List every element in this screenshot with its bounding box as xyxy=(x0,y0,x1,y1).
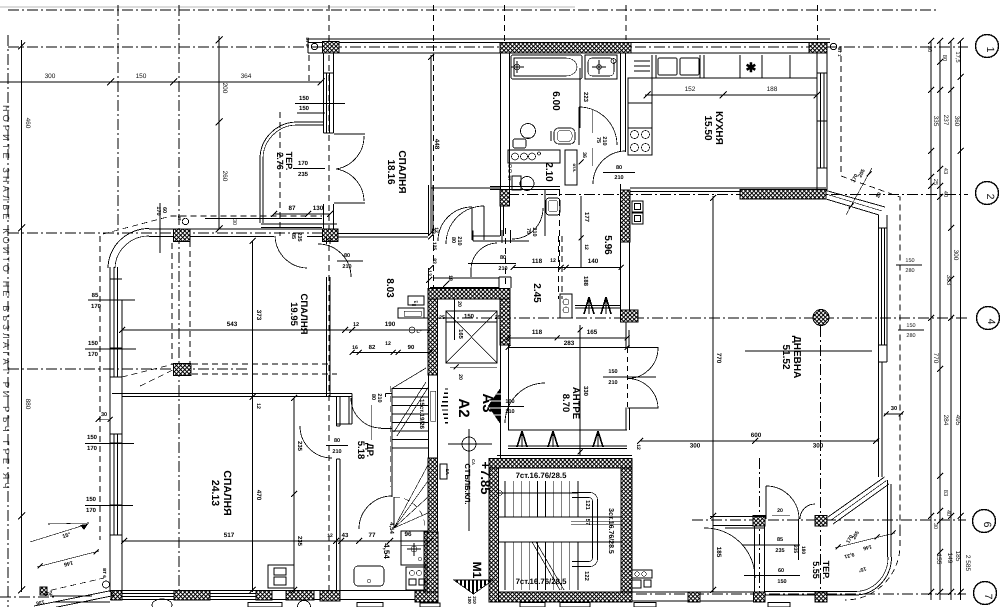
dim tick xyxy=(814,92,821,99)
label СПАЛНЯ 24.13 xyxy=(209,470,233,515)
svg-text:82: 82 xyxy=(369,344,376,351)
svg-text:364: 364 xyxy=(241,73,252,80)
elevator X 2 xyxy=(446,311,497,363)
kitchen counter edge xyxy=(631,77,817,79)
grid col x100 xyxy=(99,236,101,540)
label 8.03 xyxy=(384,278,395,298)
wall antre east low xyxy=(625,408,627,431)
column hatch antre NE xyxy=(621,310,639,322)
grid bubble 6 xyxy=(973,510,996,533)
dim 4.54 rot xyxy=(388,522,395,534)
dim 60/170 rot xyxy=(155,203,167,253)
dim text 300 xyxy=(45,73,56,80)
dim tick xyxy=(937,59,943,65)
window glazing S2 xyxy=(122,596,174,598)
BT6 label xyxy=(102,568,107,578)
small circle xyxy=(611,59,616,64)
bathtub xyxy=(511,55,582,79)
door 19.95 arc xyxy=(318,244,351,277)
column hatch wc xyxy=(500,190,510,207)
svg-text:188: 188 xyxy=(767,86,778,93)
stair top diagonal xyxy=(392,368,426,389)
wc pan 2.45 xyxy=(546,198,560,215)
label 5.96 xyxy=(602,235,613,255)
label СПАЛНЯ 19.95 xyxy=(288,293,309,334)
svg-text:30: 30 xyxy=(926,46,933,52)
dim 80/210 ДР rot xyxy=(370,393,382,440)
svg-text:150: 150 xyxy=(87,434,98,441)
wall 2.45 east2 xyxy=(561,236,563,299)
terrace bottom wall xyxy=(261,223,337,225)
window sill xyxy=(879,344,888,346)
stair lower flight1 treads xyxy=(505,481,578,517)
svg-text:85: 85 xyxy=(290,233,296,239)
wall row3 outer xyxy=(149,228,323,230)
dim text 364 xyxy=(241,73,252,80)
svg-text:210: 210 xyxy=(614,175,623,181)
wall terrace/M1 divider2 xyxy=(764,526,766,592)
svg-text:40: 40 xyxy=(945,510,951,516)
wall antre west2 xyxy=(508,345,510,430)
dim 30 balcony xyxy=(884,405,904,417)
svg-text:СА: СА xyxy=(471,459,476,465)
svg-text:150: 150 xyxy=(464,313,475,320)
door living arc top xyxy=(628,348,659,379)
wall corridor east2 xyxy=(432,185,434,236)
bottom strip fixture rect4 xyxy=(520,603,545,607)
svg-text:36: 36 xyxy=(581,152,587,158)
dim tick xyxy=(216,226,223,233)
dim tick xyxy=(937,38,943,44)
ter5.55 leaf line xyxy=(798,519,800,560)
svg-text:43: 43 xyxy=(342,532,349,539)
svg-text:122: 122 xyxy=(583,571,590,581)
dim text 360 xyxy=(953,116,960,127)
closet rail 5.96 xyxy=(575,306,620,309)
svg-text:16: 16 xyxy=(352,345,358,351)
wall 2.45 north xyxy=(473,235,500,237)
shaft wall left lower2 xyxy=(437,375,439,458)
door terrace 2.76 arc xyxy=(275,236,307,268)
dim tick xyxy=(958,513,964,519)
dim text 155 xyxy=(935,554,942,565)
window dim divider xyxy=(898,329,924,331)
diag dim SW 146 xyxy=(63,559,73,567)
wall 2.45 vert band xyxy=(502,230,511,243)
dim tick xyxy=(937,589,943,595)
svg-text:15ст.19/26: 15ст.19/26 xyxy=(418,399,425,430)
svg-text:80: 80 xyxy=(500,255,506,261)
wall west glazing2 xyxy=(117,267,119,377)
svg-text:180: 180 xyxy=(800,546,806,555)
dim text 185 xyxy=(954,551,961,562)
washbasin bath xyxy=(585,55,617,79)
terrace dashed vert top xyxy=(308,55,310,82)
diag dim SE 170 xyxy=(845,534,855,545)
dim tick xyxy=(928,87,934,93)
wall 19.95 east lower2 xyxy=(329,277,331,396)
svg-text:200: 200 xyxy=(221,83,228,94)
wall antre south cap xyxy=(497,455,632,457)
wall 2.45 north b xyxy=(473,240,529,242)
svg-text:7ст.16.76/28.5: 7ст.16.76/28.5 xyxy=(516,577,567,586)
svg-text:80: 80 xyxy=(334,438,340,444)
dim 118/12/140 xyxy=(511,258,624,270)
svg-text:100: 100 xyxy=(505,399,514,405)
dim tick xyxy=(928,183,934,189)
svg-text:517: 517 xyxy=(224,532,235,539)
door living double bottom line xyxy=(628,407,659,409)
dim text 284 xyxy=(942,415,949,426)
dim tick xyxy=(928,38,934,44)
bottom strip fixture rect3 xyxy=(420,603,440,607)
svg-text:284: 284 xyxy=(942,415,949,426)
label СА xyxy=(471,459,476,465)
wc counter circles xyxy=(512,152,541,160)
stair winder edge xyxy=(393,497,395,528)
dim tick xyxy=(426,277,432,283)
column hatch row7 far W xyxy=(688,592,700,602)
wall hatch kitchen south xyxy=(740,190,826,200)
dim 85/235 rot xyxy=(290,232,302,241)
stairwell hatch top xyxy=(489,459,632,469)
dim 283 xyxy=(506,340,630,350)
svg-text:12: 12 xyxy=(430,228,436,234)
wall bath east lower xyxy=(620,184,622,190)
grid col x560 xyxy=(559,190,561,266)
diag window SE 2 xyxy=(831,481,887,521)
svg-text:150: 150 xyxy=(299,105,310,112)
label 4.54 xyxy=(382,543,391,559)
wall jog ДР east xyxy=(348,397,350,425)
M1 dim 210 xyxy=(472,596,477,604)
door 24.13 arc xyxy=(300,426,332,458)
label ТЕР 5.55 xyxy=(811,561,831,580)
svg-text:ВТ 8: ВТ 8 xyxy=(305,38,310,48)
dim 12 rot 600line xyxy=(635,444,641,450)
svg-text:170: 170 xyxy=(87,445,98,452)
shaft hatch left lower xyxy=(428,458,438,532)
dim text 149 xyxy=(946,553,953,564)
bidet back xyxy=(550,131,552,141)
dim 12/125/83/13 rot xyxy=(428,228,437,270)
svg-text:283: 283 xyxy=(564,340,575,347)
bottom strip fixture rect2 xyxy=(357,603,383,607)
dim text 260 xyxy=(221,171,228,182)
stair label 7ст bottom xyxy=(516,577,567,586)
door corridor2 arc xyxy=(438,207,472,241)
dim text 188 xyxy=(767,86,778,93)
kitchen sink 2 xyxy=(680,58,699,75)
grid col x505 top xyxy=(504,5,506,42)
kitchen counter left xyxy=(628,78,652,128)
overhang dashed band W2 xyxy=(189,241,191,364)
column hatch row6 W xyxy=(753,516,765,527)
svg-text:25: 25 xyxy=(495,315,501,321)
dim text 152 xyxy=(685,86,696,93)
wall kitchen east outer xyxy=(816,53,818,190)
label +7.85 xyxy=(478,462,493,495)
stair left edge xyxy=(391,388,393,497)
svg-text:100: 100 xyxy=(467,596,472,604)
overhang dashed band S2 xyxy=(192,373,337,375)
balcony dashed corner SE xyxy=(845,530,900,600)
elevator dim vline xyxy=(454,299,456,340)
svg-text:373: 373 xyxy=(255,310,262,321)
grid col A x8 xyxy=(7,35,9,607)
dim 16/82/12/90 xyxy=(350,341,433,355)
diag dim SW arrow line xyxy=(30,524,88,542)
wall 18.16 west inner xyxy=(333,53,335,133)
terrace 5.55 east xyxy=(887,480,889,557)
grid col x625 top xyxy=(625,5,627,40)
dim 20 row6 xyxy=(772,508,790,515)
toilet bath xyxy=(513,124,536,149)
stair lower flight2 treads xyxy=(505,542,578,590)
grid line top horizontal xyxy=(8,9,938,11)
shaft hatch right xyxy=(500,299,510,345)
svg-text:12: 12 xyxy=(385,341,391,347)
dim text 83 xyxy=(942,490,949,496)
window cap xyxy=(879,361,888,363)
kitchen stove xyxy=(628,128,652,155)
door M1 terrace arc xyxy=(704,528,755,578)
washbasin inner xyxy=(588,58,614,76)
wall south inner xyxy=(110,599,438,601)
svg-text:210: 210 xyxy=(498,266,507,272)
wall top outer edge xyxy=(308,38,830,40)
svg-text:43: 43 xyxy=(942,168,949,174)
dim text 150 xyxy=(136,73,147,80)
svg-text:460: 460 xyxy=(24,118,31,129)
washing machine xyxy=(354,566,384,586)
label A2 xyxy=(455,398,472,417)
kitchen star symbol xyxy=(746,60,757,75)
vent circle BT1 xyxy=(830,43,836,49)
shaft hatch left bottom xyxy=(424,532,438,592)
bottom strip fixture ellipse xyxy=(152,599,172,607)
dim text 460 xyxy=(24,118,31,129)
svg-text:12: 12 xyxy=(255,403,261,409)
diag dim SE 9,31 xyxy=(844,551,855,559)
svg-text:149: 149 xyxy=(946,553,953,564)
grid col x118 xyxy=(117,5,119,235)
svg-text:280: 280 xyxy=(906,333,915,339)
svg-text:ТЕР.: ТЕР. xyxy=(821,561,831,580)
grid col x434 xyxy=(433,5,435,310)
svg-text:96: 96 xyxy=(404,531,412,538)
diag window NE 2 xyxy=(826,194,882,211)
otl box 2 xyxy=(408,296,424,305)
dim tick xyxy=(937,366,943,372)
wall 24.13 east lower2 xyxy=(339,459,341,592)
svg-text:6: 6 xyxy=(981,522,993,528)
dim 150/150 window xyxy=(295,95,345,113)
svg-text:25: 25 xyxy=(439,315,445,321)
svg-text:отл.: отл. xyxy=(572,164,577,173)
door bath arc xyxy=(579,107,617,145)
svg-text:30: 30 xyxy=(932,523,938,529)
M1 stair triangle xyxy=(454,580,493,594)
wall living east outer xyxy=(878,215,880,477)
label КУХНЯ 15.50 xyxy=(702,111,724,145)
svg-text:24.13: 24.13 xyxy=(209,480,221,506)
wall antre east low2 xyxy=(629,408,631,431)
closet hangers 5.96 xyxy=(584,297,611,314)
stairwell hatch right xyxy=(621,468,632,592)
dim 150/210 living door xyxy=(603,369,656,386)
svg-text:20: 20 xyxy=(457,374,463,380)
dim 80/210 2.45door xyxy=(468,255,516,272)
wall living east lower2 xyxy=(881,362,883,477)
wall row3 inner2 xyxy=(307,236,323,238)
svg-text:20: 20 xyxy=(456,301,462,307)
overhang dashed band W1 xyxy=(171,243,173,364)
wall bath/wc divider2 xyxy=(490,189,560,191)
kitchen sink 1 xyxy=(658,58,677,75)
svg-text:18.16: 18.16 xyxy=(385,159,396,184)
diag window SE 3 xyxy=(833,484,889,524)
svg-text:150: 150 xyxy=(608,369,617,375)
svg-text:ВТ 1: ВТ 1 xyxy=(837,48,842,58)
svg-text:185: 185 xyxy=(954,551,961,562)
label ДР 5.18 xyxy=(355,441,375,460)
closet antre rail2 xyxy=(508,448,627,450)
page left margin text xyxy=(1,105,11,492)
grid row 4 xyxy=(424,317,968,319)
column hatch row6 E xyxy=(815,516,827,527)
window dim divider xyxy=(896,264,922,266)
wall antre east upper xyxy=(626,322,629,348)
stair handrail top xyxy=(498,491,578,495)
door 18.16 double leaf bottom line xyxy=(334,202,365,204)
wall jog ДР bottom xyxy=(337,423,352,425)
door 4.54 arc xyxy=(359,496,392,529)
stair flight2 break xyxy=(532,542,564,590)
dim tick xyxy=(937,473,943,479)
window dim 150 xyxy=(906,323,915,329)
door 2.45b leaf xyxy=(470,270,472,277)
chamfer hatch block xyxy=(40,587,47,595)
door 2.45b arc xyxy=(471,243,497,270)
counter M1 sink xyxy=(401,531,427,565)
dim 330 vline xyxy=(578,325,590,455)
wall bath east inner xyxy=(625,53,627,152)
svg-text:125: 125 xyxy=(431,242,437,251)
grid bubble 1 xyxy=(976,35,999,58)
svg-text:188: 188 xyxy=(582,276,589,287)
dim col line c xyxy=(950,41,952,600)
window sill xyxy=(817,72,827,74)
toilet bath stem xyxy=(526,137,531,139)
dim tick xyxy=(937,194,943,200)
dim 85/170 left xyxy=(88,292,135,310)
svg-text:470: 470 xyxy=(255,490,262,501)
svg-text:165: 165 xyxy=(587,329,598,336)
svg-text:121: 121 xyxy=(584,500,591,510)
stair label 3ст xyxy=(607,508,615,554)
svg-text:300: 300 xyxy=(690,443,701,450)
svg-text:210: 210 xyxy=(342,264,351,270)
wall jog ДР east2 xyxy=(351,394,353,425)
corner arc NW inner xyxy=(115,236,149,268)
overhang dashed band S1 xyxy=(192,363,330,365)
dim tick xyxy=(948,589,954,595)
svg-text:210: 210 xyxy=(531,227,537,236)
chamfer dim 136 xyxy=(35,598,45,606)
door antre west arc xyxy=(505,383,545,423)
terrace corner arc outer xyxy=(260,122,297,159)
svg-text:13: 13 xyxy=(426,270,432,276)
wall top inner line xyxy=(308,42,830,44)
grid col x179 xyxy=(178,5,180,592)
wall top left cap xyxy=(307,39,309,53)
elevator dim 165 xyxy=(457,329,464,339)
wall bath east xyxy=(620,53,622,152)
wc counter xyxy=(508,150,560,163)
svg-text:300: 300 xyxy=(952,250,959,261)
svg-text:2 585: 2 585 xyxy=(964,555,971,572)
dim tick xyxy=(928,589,934,595)
wall west inner seg2 xyxy=(121,434,123,592)
wall 19.95 east upper xyxy=(326,237,328,244)
dim tick xyxy=(107,79,114,86)
svg-text:237: 237 xyxy=(942,115,949,126)
svg-text:177: 177 xyxy=(583,212,590,223)
wc toilet xyxy=(520,177,534,191)
wall west inner seg1 xyxy=(121,300,123,377)
wall west outer xyxy=(109,267,111,592)
svg-text:8.70: 8.70 xyxy=(560,394,571,413)
column hatch row7 E xyxy=(815,592,827,602)
grid row 3 left xyxy=(8,232,330,234)
grid col x820 xyxy=(820,326,822,600)
svg-text:75: 75 xyxy=(525,228,531,234)
stairwell hatch bottom xyxy=(499,592,633,602)
door terrace 5.55 leaf big xyxy=(765,486,767,519)
diag dim SE 15deg xyxy=(858,565,867,573)
stair winder 4 xyxy=(394,513,428,528)
column hatch row7 W xyxy=(754,592,766,602)
door terrace 5.55 arc big xyxy=(766,486,799,519)
dim chain kitchen top xyxy=(645,94,817,96)
dim tick xyxy=(928,513,934,519)
dim text 17,5 xyxy=(954,51,960,62)
stair winder arc xyxy=(394,497,425,528)
label АНТРЕ 8.70 xyxy=(560,387,581,419)
elevator X 1 xyxy=(446,311,497,363)
wall wc west2 xyxy=(503,206,505,236)
svg-text:6.00: 6.00 xyxy=(550,91,561,111)
column hatch top terrace xyxy=(323,42,340,54)
label BT1 xyxy=(837,48,842,58)
dim tick xyxy=(948,513,954,519)
dim tick xyxy=(948,276,954,282)
dim 177 rot xyxy=(579,196,591,267)
svg-text:90: 90 xyxy=(408,344,415,351)
stair landing edge 2 xyxy=(499,541,622,543)
chamfer base line xyxy=(50,595,92,597)
M1 dim 100 xyxy=(467,596,472,604)
wall hatch S2 xyxy=(174,591,210,601)
bathtub faucet xyxy=(511,61,524,73)
dim 770 vline xyxy=(710,195,722,519)
window dim 280 xyxy=(905,268,914,274)
svg-text:8.03: 8.03 xyxy=(384,278,395,298)
svg-text:18: 18 xyxy=(447,275,453,281)
svg-text:2.45: 2.45 xyxy=(531,283,542,303)
wall corridor east xyxy=(428,185,430,236)
